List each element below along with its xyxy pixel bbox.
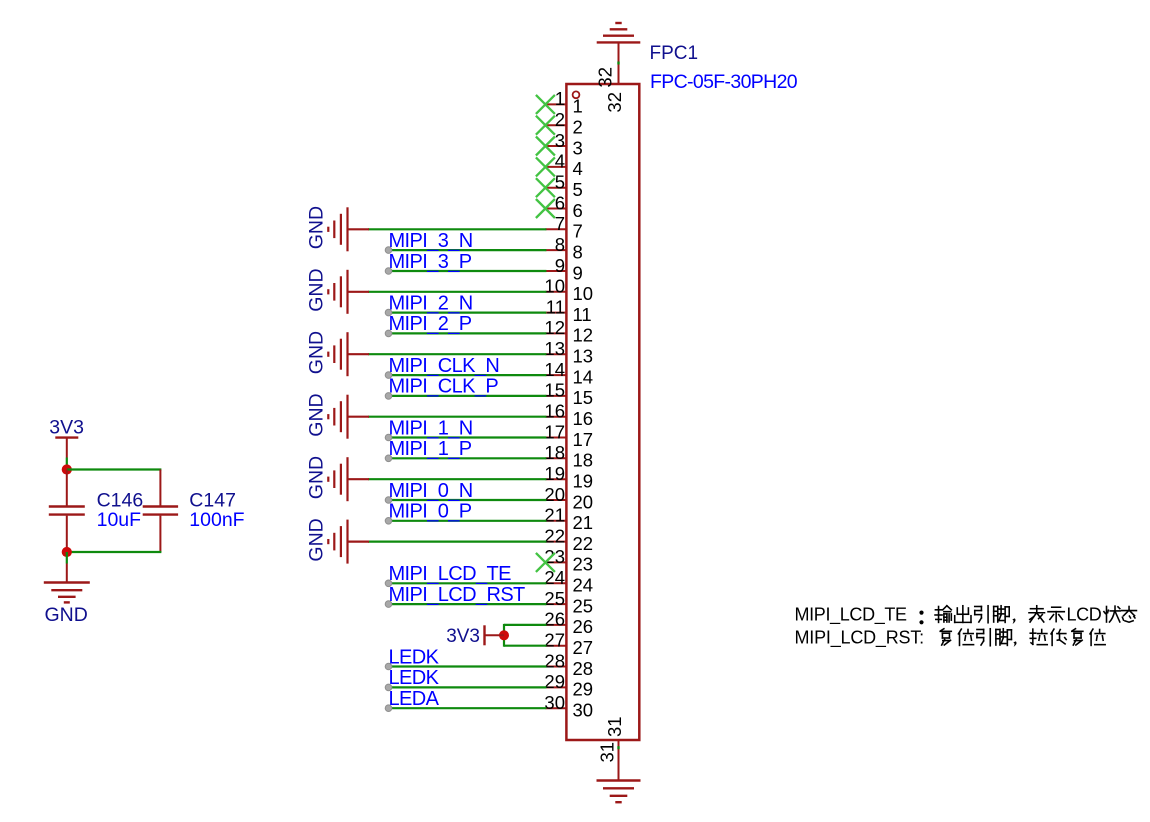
svg-text:9: 9	[573, 262, 583, 283]
wire MIPI_LCD_RST (pin 25)	[389, 603, 547, 605]
ground symbol (pin 13)	[328, 332, 369, 376]
no-connect X on pin 23	[536, 553, 555, 572]
svg-text:23: 23	[573, 554, 594, 575]
svg-text:MIPI_3_P: MIPI_3_P	[389, 251, 472, 273]
pin 23 stub	[545, 561, 566, 563]
svg-text:12: 12	[573, 325, 594, 346]
svg-text:9: 9	[555, 255, 565, 276]
svg-text:1: 1	[555, 88, 565, 109]
pin 5 stub	[545, 187, 566, 189]
no-connect X on pin 3	[536, 137, 555, 156]
svg-text:12: 12	[544, 317, 565, 338]
pin 26 stub	[545, 624, 566, 626]
annotation line 2 CJK: 复位引脚，拉低复位	[940, 629, 951, 645]
ground symbol (pin 16)	[328, 395, 369, 439]
capacitor C146 bottom pin	[66, 516, 68, 552]
dangling end dot (pin 15)	[385, 393, 392, 400]
capacitor C146 top pin	[66, 470, 68, 506]
pin 21 stub	[545, 520, 566, 522]
wire junction to ground	[66, 564, 68, 583]
svg-text:24: 24	[573, 575, 594, 596]
svg-text:MIPI_LCD_RST:: MIPI_LCD_RST:	[795, 627, 924, 648]
capacitor C146 plates	[49, 505, 85, 507]
pin 1 stub	[545, 103, 566, 105]
no-connect X on pin 1	[536, 95, 555, 114]
pin 29 stub	[545, 686, 566, 688]
svg-text:17: 17	[544, 421, 565, 442]
svg-text:21: 21	[573, 512, 594, 533]
pin 28 stub	[545, 666, 566, 668]
pin 27 stub	[545, 645, 566, 647]
wire nub (bottom, green)	[617, 746, 619, 749]
svg-text:5: 5	[573, 179, 583, 200]
wire pin 19 to GND	[368, 478, 546, 480]
dangling end dot (pin 18)	[385, 455, 392, 462]
svg-text:22: 22	[573, 533, 594, 554]
svg-text:4: 4	[573, 158, 583, 179]
wire bottom rail C147 to junction	[67, 551, 162, 553]
svg-text:28: 28	[544, 650, 565, 671]
svg-text:3V3: 3V3	[446, 626, 480, 647]
dangling end dot (pin 8)	[385, 247, 392, 254]
svg-text:MIPI_1_N: MIPI_1_N	[389, 417, 473, 439]
pin 19 stub	[545, 478, 566, 480]
svg-text:26: 26	[573, 616, 594, 637]
svg-text:GND: GND	[306, 456, 328, 499]
dangling end dot (pin 9)	[385, 268, 392, 275]
svg-text:GND: GND	[306, 268, 328, 311]
pin 25 stub	[545, 603, 566, 605]
svg-text:27: 27	[573, 637, 594, 658]
no-connect X on pin 5	[536, 178, 555, 197]
pin 11 stub	[545, 312, 566, 314]
no-connect X on pin 4	[536, 157, 555, 176]
wire MIPI_1_P (pin 18)	[389, 457, 547, 459]
pin 24 stub	[545, 582, 566, 584]
junction dot GND bottom	[62, 547, 72, 557]
svg-text:18: 18	[573, 450, 594, 471]
wire MIPI_1_N (pin 17)	[389, 436, 547, 438]
svg-text:10: 10	[573, 283, 594, 304]
svg-text:MIPI_CLK_N: MIPI_CLK_N	[389, 355, 500, 377]
wire pin 13 to GND	[368, 353, 546, 355]
no-connect X on pin 6	[536, 199, 555, 218]
svg-text:3: 3	[573, 137, 583, 158]
wire pin 27	[504, 645, 546, 647]
pin 6 stub	[545, 208, 566, 210]
svg-text:2: 2	[555, 109, 565, 130]
wire nub (top, green)	[617, 62, 619, 65]
power port 3V3 (left) stub	[66, 438, 68, 458]
svg-text:28: 28	[573, 658, 594, 679]
svg-text:22: 22	[544, 525, 565, 546]
svg-text:LEDK: LEDK	[389, 646, 440, 668]
wire nub below junction (green)	[66, 552, 68, 564]
svg-text:32: 32	[595, 67, 616, 88]
pin 10 stub	[545, 291, 566, 293]
svg-text:LEDK: LEDK	[389, 667, 440, 689]
svg-text:29: 29	[544, 671, 565, 692]
pin 7 stub	[545, 228, 566, 230]
wire MIPI_3_P (pin 9)	[389, 270, 547, 272]
connector FPC1 body	[566, 84, 639, 740]
junction dot 3V3 top	[62, 464, 72, 474]
svg-text:6: 6	[573, 200, 583, 221]
svg-text:17: 17	[573, 429, 594, 450]
pin 20 stub	[545, 499, 566, 501]
pin 1 indicator circle	[573, 91, 580, 98]
pin 9 stub	[545, 270, 566, 272]
power port 3V3 (left) bar	[55, 436, 78, 438]
svg-text:13: 13	[573, 346, 594, 367]
wire pin 16 to GND	[368, 416, 546, 418]
svg-text:32: 32	[604, 92, 625, 113]
svg-text:FPC-05F-30PH20: FPC-05F-30PH20	[650, 71, 798, 93]
wire MIPI_0_N (pin 20)	[389, 499, 547, 501]
wire MIPI_2_P (pin 12)	[389, 332, 547, 334]
ground symbol (pin 10)	[328, 270, 369, 314]
svg-text:100nF: 100nF	[189, 509, 244, 531]
svg-text:MIPI_3_N: MIPI_3_N	[389, 230, 473, 252]
capacitor C147 top pin	[159, 470, 161, 506]
power port 3V3 (pins 26/27) stub	[485, 634, 505, 636]
svg-text:15: 15	[573, 387, 594, 408]
svg-text:18: 18	[544, 442, 565, 463]
ground symbol (pin 22)	[328, 520, 369, 564]
svg-text:14: 14	[544, 359, 565, 380]
svg-text:25: 25	[544, 588, 565, 609]
svg-text:31: 31	[604, 716, 625, 737]
svg-text:8: 8	[573, 241, 583, 262]
pin 32 wire (top)	[618, 43, 620, 84]
svg-text:11: 11	[546, 296, 565, 317]
svg-text:13: 13	[544, 338, 565, 359]
wire pin 7 to GND	[368, 228, 546, 230]
svg-text:GND: GND	[306, 518, 328, 561]
svg-text:16: 16	[573, 408, 594, 429]
no-connect X on pin 2	[536, 116, 555, 135]
svg-text:30: 30	[573, 700, 594, 721]
svg-text:3: 3	[555, 130, 565, 151]
wire pin 26	[504, 624, 546, 626]
svg-text:FPC1: FPC1	[650, 43, 699, 64]
pin 12 stub	[545, 332, 566, 334]
svg-text:5: 5	[555, 172, 565, 193]
svg-text:10uF: 10uF	[97, 509, 142, 531]
dangling end dot (pin 29)	[385, 684, 392, 691]
svg-text:2: 2	[573, 117, 583, 138]
ground symbol (bottom)	[597, 781, 641, 803]
wire LEDK (pin 29)	[389, 686, 547, 688]
svg-text:GND: GND	[45, 604, 88, 626]
capacitor C147 bottom pin	[159, 516, 161, 552]
pin 16 stub	[545, 416, 566, 418]
svg-text:MIPI_0_N: MIPI_0_N	[389, 480, 473, 502]
svg-text:MIPI_1_P: MIPI_1_P	[389, 438, 472, 460]
wire MIPI_3_N (pin 8)	[389, 249, 547, 251]
pin 3 stub	[545, 145, 566, 147]
pin 17 stub	[545, 437, 566, 439]
dangling end dot (pin 21)	[385, 518, 392, 525]
svg-text:11: 11	[573, 304, 592, 325]
svg-text:6: 6	[555, 192, 565, 213]
svg-text:19: 19	[573, 471, 594, 492]
pin 8 stub	[545, 249, 566, 251]
svg-text:MIPI_LCD_TE: MIPI_LCD_TE	[795, 604, 908, 625]
capacitor C147 plates	[143, 505, 178, 507]
dangling end dot (pin 25)	[385, 601, 392, 608]
svg-text:29: 29	[573, 679, 594, 700]
svg-text:7: 7	[573, 221, 583, 242]
svg-text:27: 27	[544, 630, 565, 651]
junction dot 3V3 tie	[499, 630, 509, 640]
wire LEDK (pin 28)	[389, 665, 547, 667]
wire MIPI_2_N (pin 11)	[389, 312, 547, 314]
svg-text:GND: GND	[306, 331, 328, 374]
wire top rail to C147	[67, 468, 162, 470]
svg-text:GND: GND	[306, 393, 328, 436]
dangling end dot (pin 17)	[385, 434, 392, 441]
svg-text:3V3: 3V3	[49, 417, 84, 439]
svg-text:MIPI_CLK_P: MIPI_CLK_P	[389, 376, 499, 398]
svg-text:21: 21	[544, 505, 565, 526]
svg-text:16: 16	[544, 401, 565, 422]
dangling end dot (pin 24)	[385, 580, 392, 587]
ground symbol (left)	[44, 583, 90, 603]
svg-text:7: 7	[555, 213, 565, 234]
wire 3V3 to junction	[66, 458, 68, 470]
wire MIPI_0_P (pin 21)	[389, 520, 547, 522]
svg-text:GND: GND	[306, 206, 328, 249]
pin 13 stub	[545, 353, 566, 355]
power port 3V3 (pins 26/27) bar	[483, 625, 485, 645]
svg-text:19: 19	[544, 463, 565, 484]
svg-text:31: 31	[596, 742, 617, 763]
svg-text:8: 8	[555, 234, 565, 255]
dangling end dot (pin 20)	[385, 497, 392, 504]
dangling end dot (pin 12)	[385, 330, 392, 337]
svg-text:MIPI_LCD_TE: MIPI_LCD_TE	[389, 563, 512, 585]
pin 30 stub	[545, 707, 566, 709]
dangling end dot (pin 28)	[385, 663, 392, 670]
annotation line 1 fullwidth colon	[919, 611, 923, 615]
svg-text:MIPI_2_N: MIPI_2_N	[389, 292, 473, 314]
wire MIPI_CLK_P (pin 15)	[389, 395, 547, 397]
svg-text:MIPI_LCD_RST: MIPI_LCD_RST	[389, 584, 526, 606]
svg-text:20: 20	[544, 484, 565, 505]
pin 22 stub	[545, 541, 566, 543]
svg-text:14: 14	[573, 366, 594, 387]
dangling end dot (pin 14)	[385, 372, 392, 379]
svg-text:10: 10	[544, 276, 565, 297]
pin 31 wire (bottom)	[618, 740, 620, 780]
svg-text:LEDA: LEDA	[389, 688, 440, 710]
ground symbol (top, pointing up)	[597, 23, 641, 42]
svg-text:LCD: LCD	[1067, 604, 1102, 624]
svg-text:MIPI_0_P: MIPI_0_P	[389, 501, 472, 523]
pin 14 stub	[545, 374, 566, 376]
dangling end dot (pin 30)	[385, 705, 392, 712]
wire vertical tie 26-27	[503, 624, 505, 647]
ground symbol (pin 19)	[328, 457, 369, 501]
pin 15 stub	[545, 395, 566, 397]
pin 18 stub	[545, 457, 566, 459]
dangling end dot (pin 11)	[385, 309, 392, 316]
annotation line 1 CJK: 输出引脚，表示LCD状态	[935, 606, 951, 623]
ground symbol (pin 7)	[328, 207, 369, 251]
svg-text:MIPI_2_P: MIPI_2_P	[389, 313, 472, 335]
wire pin 10 to GND	[368, 291, 546, 293]
svg-text:15: 15	[544, 380, 565, 401]
wire pin 22 to GND	[368, 540, 546, 542]
svg-text:30: 30	[544, 692, 565, 713]
wire MIPI_CLK_N (pin 14)	[389, 374, 547, 376]
wire LEDA (pin 30)	[389, 707, 547, 709]
wire MIPI_LCD_TE (pin 24)	[389, 582, 547, 584]
svg-text:20: 20	[573, 491, 594, 512]
svg-text:1: 1	[573, 96, 583, 117]
svg-text:4: 4	[555, 151, 565, 172]
pin 4 stub	[545, 166, 566, 168]
svg-text:26: 26	[544, 609, 565, 630]
pin 2 stub	[545, 124, 566, 126]
svg-text:25: 25	[573, 595, 594, 616]
